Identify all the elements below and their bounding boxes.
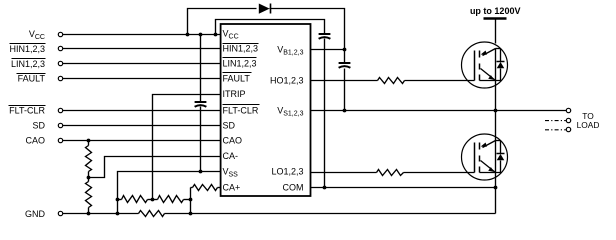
wire VCC to diode anode bbox=[188, 9, 257, 35]
junction R2-GND bbox=[87, 212, 91, 216]
wire VCC to capacitor C1 bbox=[216, 20, 325, 35]
svg-text:HIN1,2,3: HIN1,2,3 bbox=[223, 44, 259, 54]
svg-text:COM: COM bbox=[283, 183, 304, 193]
node HIN1,2,3 input terminal bbox=[58, 46, 62, 50]
node FAULT input terminal bbox=[58, 76, 62, 80]
resistor R6 in GND rail bbox=[139, 211, 165, 217]
wire GND rail left bbox=[63, 213, 139, 215]
svg-text:ITRIP: ITRIP bbox=[223, 89, 246, 99]
node GND input terminal bbox=[58, 211, 62, 215]
junction VSS-GND bbox=[116, 212, 120, 216]
wire COM rail bbox=[311, 187, 496, 189]
svg-text:LIN1,2,3: LIN1,2,3 bbox=[11, 59, 45, 69]
wire FLT-CLR bbox=[63, 110, 221, 112]
transistor Q1 high-side switch bbox=[462, 42, 508, 88]
resistor R8 LO gate bbox=[377, 170, 404, 176]
svg-text:CA+: CA+ bbox=[223, 183, 241, 193]
node load terminal 3 bbox=[566, 127, 570, 131]
junction CA+-GND bbox=[189, 212, 193, 216]
junction ITRIP-midline bbox=[151, 198, 155, 202]
wire VS to Q2 drain bbox=[495, 111, 497, 141]
wire C2 to VS bbox=[344, 69, 346, 111]
svg-text:HIN1,2,3: HIN1,2,3 bbox=[9, 44, 45, 54]
junction midline-CA+ vertical bbox=[189, 198, 193, 202]
junction CAO-R1 bbox=[87, 139, 91, 143]
junction VSS-midline bbox=[116, 198, 120, 202]
svg-text:LOAD: LOAD bbox=[577, 120, 600, 130]
svg-text:SD: SD bbox=[223, 121, 236, 131]
junction VS-FET bbox=[494, 109, 498, 113]
node HV bus terminal bar bbox=[484, 17, 507, 20]
svg-text:FAULT: FAULT bbox=[223, 73, 251, 83]
wire SD bbox=[63, 125, 221, 127]
resistor R7 HO gate bbox=[378, 78, 405, 84]
node phase output terminal bbox=[566, 108, 570, 112]
wire HIN1,2,3 bbox=[63, 48, 221, 50]
wire VSS pin rail bbox=[118, 172, 221, 214]
junction COM-FET source bbox=[494, 186, 498, 190]
wire VB pin bbox=[311, 49, 345, 51]
IC U1 gate driver body bbox=[221, 24, 311, 196]
svg-text:GND: GND bbox=[25, 209, 46, 219]
wire VS rail bbox=[311, 110, 567, 112]
node SD input terminal bbox=[58, 123, 62, 127]
resistor R1 CAO feedback bbox=[86, 146, 92, 172]
resistor R5 CA+ bbox=[218, 187, 221, 189]
svg-text:LO1,2,3: LO1,2,3 bbox=[271, 167, 303, 177]
svg-text:CA-: CA- bbox=[223, 151, 239, 161]
svg-text:up to 1200V: up to 1200V bbox=[470, 6, 521, 16]
node load terminal 2 bbox=[566, 118, 570, 122]
junction VB node bbox=[343, 48, 347, 52]
svg-text:CAO: CAO bbox=[25, 136, 45, 146]
node LIN1,2,3 input terminal bbox=[58, 61, 62, 65]
resistor R2 to GND bbox=[86, 182, 92, 208]
wire dashed load line 2 bbox=[545, 120, 566, 122]
junction VCC-diode bbox=[186, 33, 190, 37]
wire HV bus to Q1 drain bbox=[495, 19, 497, 44]
wire HO resistor to Q1 gate bbox=[405, 80, 475, 82]
junction C2-VS bbox=[343, 109, 347, 113]
resistor R3 midline bbox=[118, 199, 122, 201]
resistor R4 midline bbox=[153, 199, 158, 201]
wire GND rail right bbox=[165, 213, 496, 215]
junction C3-VSS bbox=[199, 170, 203, 174]
wire LIN1,2,3 bbox=[63, 63, 221, 65]
svg-text:FLT-CLR: FLT-CLR bbox=[9, 106, 45, 116]
node CAO input terminal bbox=[58, 138, 62, 142]
capacitor C3 VCC-VSS bbox=[195, 101, 207, 103]
wire dashed load line 3 bbox=[545, 129, 566, 131]
wire FAULT bbox=[63, 78, 221, 80]
svg-text:FLT-CLR: FLT-CLR bbox=[223, 106, 259, 116]
wire C1 to COM bbox=[324, 39, 326, 188]
node VCC input terminal bbox=[58, 32, 62, 36]
wire CAO bbox=[63, 140, 221, 142]
wire C3 to VSS bbox=[200, 107, 202, 172]
svg-text:HO1,2,3: HO1,2,3 bbox=[270, 76, 304, 86]
diode D1 bootstrap bbox=[259, 4, 270, 14]
svg-text:SD: SD bbox=[32, 121, 45, 131]
wire Q1 source to VS bbox=[495, 81, 497, 111]
capacitor C1 VCC-COM bbox=[319, 33, 331, 35]
junction R1-R2 node bbox=[87, 176, 91, 180]
wire Q2 source down bbox=[495, 173, 497, 214]
wire LO pin to gate resistor bbox=[311, 172, 377, 174]
junction VCC-cap C1 feed bbox=[214, 33, 218, 37]
wire ITRIP pin to divider bbox=[153, 95, 221, 200]
svg-text:LIN1,2,3: LIN1,2,3 bbox=[223, 59, 257, 69]
capacitor C2 bootstrap VB-VS bbox=[339, 62, 351, 64]
node FLT-CLR input terminal bbox=[58, 108, 62, 112]
wire VCC rail bbox=[63, 34, 221, 36]
wire CA+ vertical bbox=[190, 188, 192, 214]
svg-text:FAULT: FAULT bbox=[18, 74, 46, 84]
wire diode cathode to VB bbox=[270, 9, 345, 50]
junction C1-COM bbox=[323, 186, 327, 190]
wire CA- jog bbox=[89, 157, 221, 178]
wire VCC to capacitor C3 bbox=[200, 35, 202, 103]
transistor Q2 low-side switch bbox=[462, 134, 508, 180]
wire HO pin to gate resistor bbox=[311, 80, 378, 82]
junction VCC-cap C3 bbox=[199, 33, 203, 37]
wire VB to bootstrap cap bbox=[344, 50, 346, 64]
wire LO resistor to Q2 gate bbox=[404, 172, 475, 174]
svg-text:CAO: CAO bbox=[223, 135, 243, 145]
